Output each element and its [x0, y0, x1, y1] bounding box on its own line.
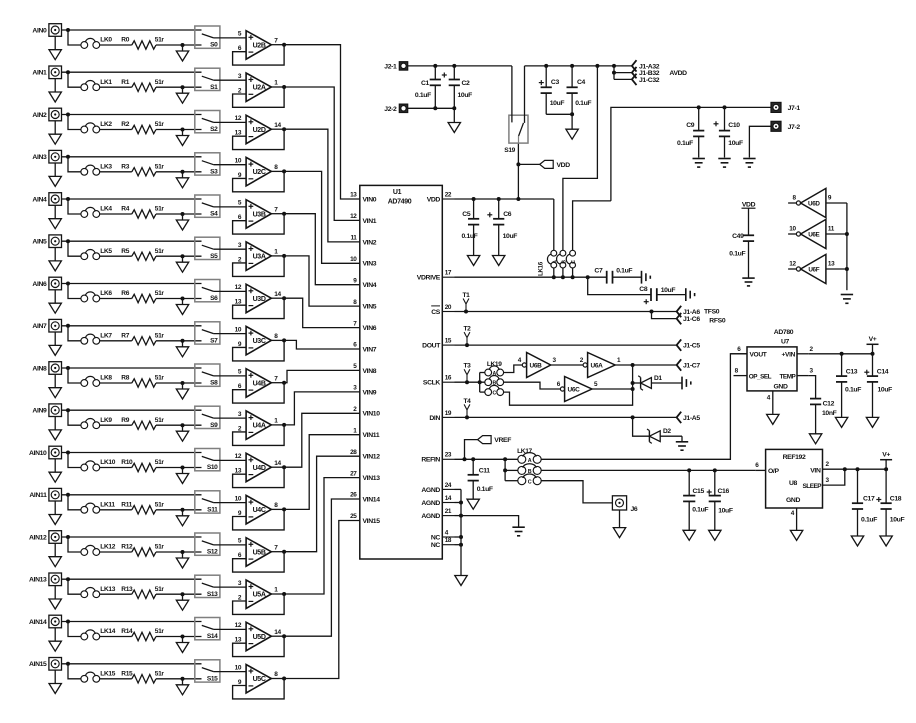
- wire feedback: [233, 679, 285, 699]
- svg-text:VIN15: VIN15: [363, 518, 381, 525]
- svg-text:8: 8: [792, 194, 796, 201]
- switch S2: [195, 111, 220, 134]
- wire: [271, 592, 286, 596]
- wire: [68, 284, 81, 299]
- pin 2 +VIN: [797, 346, 814, 354]
- svg-text:C4: C4: [577, 79, 586, 86]
- wire to VIN3: [284, 171, 360, 263]
- svg-text:0.1uF: 0.1uF: [477, 486, 493, 493]
- wire: [68, 72, 81, 87]
- ground: [613, 510, 625, 538]
- svg-text:11: 11: [828, 225, 835, 232]
- svg-text:R2: R2: [121, 121, 129, 128]
- svg-text:C: C: [492, 391, 496, 397]
- pin 24 AGND: [421, 482, 454, 494]
- wire: [156, 254, 202, 258]
- svg-text:C2: C2: [462, 80, 471, 87]
- wire: [271, 43, 286, 47]
- op-amp U4B: [238, 369, 278, 398]
- link LK17 A: [518, 453, 541, 464]
- pin 13 VIN0: [350, 192, 377, 204]
- wire AVDD rail: [525, 64, 632, 68]
- svg-text:28: 28: [350, 449, 357, 456]
- wire J2-2 rail: [408, 106, 457, 110]
- svg-text:3: 3: [238, 580, 242, 587]
- wire: [99, 636, 131, 638]
- svg-text:LK10: LK10: [100, 459, 115, 466]
- svg-text:LK6: LK6: [100, 290, 112, 297]
- capacitor C1 0.1uF: [415, 66, 441, 108]
- svg-text:S10: S10: [207, 464, 218, 471]
- svg-text:C11: C11: [479, 468, 491, 475]
- svg-text:U4A: U4A: [253, 423, 266, 430]
- resistor R4 51r: [121, 206, 164, 219]
- svg-text:U5A: U5A: [253, 592, 266, 599]
- svg-text:10: 10: [235, 495, 242, 502]
- switch S10: [195, 449, 220, 472]
- wire: [68, 199, 81, 214]
- svg-text:RFS0: RFS0: [709, 318, 726, 325]
- svg-text:LK0: LK0: [100, 37, 112, 44]
- wire: [99, 255, 131, 257]
- switch S5: [195, 237, 220, 260]
- wire: [214, 290, 247, 292]
- svg-text:J1-A6: J1-A6: [683, 309, 700, 316]
- wire feedback: [233, 383, 285, 403]
- op-amp U2D: [235, 115, 282, 144]
- wire: [214, 417, 247, 419]
- svg-text:U6D: U6D: [808, 201, 820, 208]
- link LK3: [81, 163, 112, 175]
- svg-text:3: 3: [238, 242, 242, 249]
- resistor R8 51r: [121, 375, 164, 388]
- wire feedback: [233, 129, 285, 149]
- ground: [49, 163, 61, 186]
- wire: [511, 66, 513, 122]
- IC U8 REF192: [766, 449, 823, 508]
- svg-text:0.1uF: 0.1uF: [575, 100, 591, 107]
- node AIN9: [32, 408, 47, 415]
- wire: [156, 85, 202, 89]
- svg-text:U5D: U5D: [253, 634, 266, 641]
- svg-text:S1: S1: [210, 84, 218, 91]
- wire: [271, 296, 286, 300]
- wire: [156, 128, 202, 132]
- svg-text:LK7: LK7: [100, 332, 112, 339]
- svg-text:VREF: VREF: [494, 437, 511, 444]
- pin 7 VIN6: [353, 320, 376, 332]
- wire to VIN10: [284, 413, 360, 467]
- pin 3 SLEEP: [823, 469, 845, 485]
- wire: [214, 586, 247, 588]
- wire: [615, 363, 676, 367]
- wire: [271, 550, 286, 554]
- wire: [68, 30, 81, 45]
- svg-text:LK16: LK16: [538, 261, 545, 276]
- svg-text:5: 5: [594, 381, 598, 388]
- svg-text:10uF: 10uF: [503, 233, 518, 240]
- svg-text:REFIN: REFIN: [421, 457, 440, 464]
- svg-text:J7-2: J7-2: [788, 124, 801, 131]
- wire: [68, 579, 81, 594]
- svg-text:10: 10: [235, 664, 242, 671]
- svg-text:20: 20: [445, 304, 452, 311]
- ground: [49, 670, 61, 694]
- svg-text:LK12: LK12: [100, 544, 115, 551]
- link LK7: [81, 332, 112, 344]
- wire: [99, 213, 131, 215]
- svg-text:C3: C3: [551, 79, 560, 86]
- ground: [176, 45, 188, 61]
- svg-text:U3B: U3B: [253, 211, 266, 218]
- ground: [743, 159, 755, 168]
- wire: [271, 465, 286, 469]
- inverter U6B: [518, 353, 557, 378]
- svg-text:12: 12: [235, 284, 242, 291]
- svg-text:LK3: LK3: [100, 163, 112, 170]
- pin 18 NC: [431, 537, 455, 549]
- op-amp U3D: [235, 284, 282, 313]
- svg-text:U6F: U6F: [808, 267, 819, 274]
- svg-text:10uF: 10uF: [728, 140, 743, 147]
- svg-text:VIN5: VIN5: [363, 304, 377, 311]
- wire to VIN15: [284, 521, 360, 679]
- svg-text:25: 25: [350, 513, 357, 520]
- svg-text:S14: S14: [207, 633, 218, 640]
- resistor R14 51r: [121, 628, 164, 641]
- resistor R11 51r: [121, 501, 164, 514]
- svg-text:TFS0: TFS0: [704, 309, 720, 316]
- pin 6 O/P: [755, 462, 765, 470]
- svg-text:23: 23: [445, 452, 452, 459]
- wire: [62, 70, 202, 74]
- svg-text:10uF: 10uF: [661, 287, 676, 294]
- svg-text:8: 8: [735, 368, 739, 375]
- ground: [49, 628, 61, 651]
- wire: [62, 197, 202, 201]
- svg-text:TEMP: TEMP: [780, 373, 797, 380]
- node AIN13: [29, 577, 47, 584]
- wire: [99, 467, 131, 469]
- svg-text:8: 8: [274, 164, 278, 171]
- capacitor C13 0.1uF: [836, 354, 861, 418]
- wire: [62, 408, 202, 412]
- svg-text:VDD: VDD: [742, 201, 756, 208]
- link LK17 B: [505, 464, 541, 475]
- IC U7 AD780: [747, 329, 797, 391]
- wire to U7 VOUT: [541, 354, 747, 460]
- switch S19: [504, 115, 528, 154]
- wire REFIN net: [455, 457, 518, 461]
- svg-text:1: 1: [274, 249, 278, 256]
- wire feedback: [233, 298, 285, 318]
- svg-text:AD780: AD780: [774, 329, 794, 336]
- svg-text:C1: C1: [421, 80, 430, 87]
- ground: [49, 417, 61, 440]
- svg-text:VIN2: VIN2: [363, 239, 377, 246]
- wire: [156, 43, 202, 47]
- svg-text:AIN6: AIN6: [32, 281, 47, 288]
- power V+: [880, 452, 892, 470]
- wire: [271, 423, 286, 427]
- svg-text:GND: GND: [773, 384, 787, 391]
- inverter U6D: [788, 188, 847, 217]
- svg-text:51r: 51r: [155, 375, 165, 382]
- ground: [880, 536, 892, 546]
- net label VDD: [742, 201, 756, 208]
- pin 19 DIN: [429, 410, 454, 422]
- link LK19 B: [485, 376, 504, 387]
- capacitor C15 0.1uF: [683, 470, 708, 530]
- ground: [841, 295, 853, 304]
- svg-text:AIN10: AIN10: [29, 450, 47, 457]
- svg-text:5: 5: [353, 363, 357, 370]
- diode D1: [631, 375, 682, 390]
- node AIN1: [32, 70, 47, 77]
- link LK16 B: [557, 66, 598, 277]
- svg-text:AIN13: AIN13: [29, 577, 47, 584]
- wire: [503, 365, 633, 405]
- svg-text:U8: U8: [789, 480, 798, 487]
- svg-text:3: 3: [238, 73, 242, 80]
- ground: [866, 417, 878, 427]
- pin 17 VDRIVE: [417, 270, 455, 282]
- pin 4 GND: [767, 391, 773, 414]
- svg-text:51r: 51r: [155, 501, 165, 508]
- svg-text:0.1uF: 0.1uF: [729, 250, 745, 257]
- ground: [176, 425, 188, 441]
- wire: [68, 241, 81, 256]
- svg-text:13: 13: [828, 260, 835, 267]
- svg-text:R8: R8: [121, 375, 129, 382]
- resistor R13 51r: [121, 586, 164, 599]
- connector J6: [612, 496, 638, 513]
- ground: [693, 159, 705, 168]
- svg-text:U5C: U5C: [253, 676, 266, 683]
- svg-text:11: 11: [350, 235, 357, 242]
- resistor R6 51r: [121, 290, 164, 303]
- link LK15: [81, 670, 116, 682]
- wire VDD net: [455, 197, 554, 201]
- wire: [214, 628, 247, 630]
- svg-text:SLEEP: SLEEP: [803, 483, 823, 490]
- op-amp U5D: [235, 622, 282, 651]
- wire: [68, 326, 81, 341]
- svg-text:U2D: U2D: [253, 127, 266, 134]
- switch S0: [195, 26, 220, 49]
- svg-text:LK5: LK5: [100, 248, 112, 255]
- node AIN5: [32, 239, 47, 246]
- wire VDRIVE net: [455, 275, 607, 279]
- ground: [49, 205, 61, 228]
- svg-text:0.1uF: 0.1uF: [677, 140, 693, 147]
- svg-text:C10: C10: [728, 122, 740, 129]
- pin 23 REFIN: [421, 452, 454, 464]
- wire: [214, 206, 247, 208]
- link LK13: [81, 586, 116, 598]
- node AIN4: [32, 196, 47, 203]
- svg-text:VIN10: VIN10: [363, 411, 381, 418]
- pin 4 GND: [791, 508, 797, 530]
- svg-text:R9: R9: [121, 417, 129, 424]
- wire: [156, 212, 202, 216]
- svg-text:J1-C32: J1-C32: [639, 77, 660, 84]
- svg-text:VDD: VDD: [427, 196, 441, 203]
- pin 16 SCLK: [423, 375, 455, 387]
- svg-text:R13: R13: [121, 586, 133, 593]
- wire: [99, 298, 131, 300]
- wire: [62, 366, 202, 370]
- wire feedback: [233, 552, 285, 572]
- svg-text:U3D: U3D: [253, 296, 266, 303]
- ground: [835, 417, 847, 427]
- svg-text:C7: C7: [594, 268, 603, 275]
- capacitor C17 0.1uF: [852, 469, 877, 536]
- wire: [99, 340, 131, 342]
- wire: [271, 254, 286, 258]
- wire: [546, 112, 574, 116]
- svg-text:S8: S8: [210, 380, 218, 387]
- wire: [68, 453, 81, 468]
- test point T2: [464, 326, 472, 346]
- wire: [214, 333, 247, 335]
- pin 25 VIN15: [350, 513, 380, 525]
- wire: [271, 677, 286, 681]
- svg-text:9: 9: [828, 194, 832, 201]
- svg-text:10nF: 10nF: [822, 410, 837, 417]
- wire: [214, 502, 247, 504]
- ground: [493, 256, 505, 266]
- svg-text:0.1uF: 0.1uF: [861, 517, 877, 524]
- svg-text:1: 1: [617, 357, 621, 364]
- ground: [49, 79, 61, 103]
- svg-text:R0: R0: [121, 37, 129, 44]
- ground: [49, 501, 61, 524]
- wire CS net: [455, 310, 677, 314]
- wire: [68, 664, 81, 679]
- wire: [214, 375, 247, 377]
- link LK5: [81, 248, 112, 260]
- ground: [742, 278, 754, 286]
- resistor R1 51r: [121, 79, 164, 92]
- svg-text:NC: NC: [431, 542, 441, 549]
- ground: [176, 299, 188, 315]
- svg-text:0.1uF: 0.1uF: [461, 233, 477, 240]
- svg-text:AIN7: AIN7: [32, 323, 47, 330]
- wire: [99, 509, 131, 511]
- wire: [156, 381, 202, 385]
- svg-text:VOUT: VOUT: [750, 351, 767, 358]
- svg-text:VDRIVE: VDRIVE: [417, 275, 441, 282]
- svg-text:U7: U7: [781, 338, 790, 345]
- wire: [156, 635, 202, 639]
- svg-text:C6: C6: [503, 211, 512, 218]
- wire: [156, 508, 202, 512]
- wire: [156, 677, 202, 681]
- resistor R3 51r: [121, 163, 164, 176]
- wire: [524, 66, 526, 123]
- svg-text:VIN0: VIN0: [363, 196, 377, 203]
- svg-text:4: 4: [791, 510, 795, 517]
- svg-text:51r: 51r: [155, 290, 165, 297]
- wire feedback: [233, 636, 285, 656]
- wire: [214, 79, 247, 81]
- svg-text:NC: NC: [431, 534, 441, 541]
- switch S6: [195, 280, 220, 303]
- svg-text:R15: R15: [121, 670, 133, 677]
- wire: [214, 164, 247, 166]
- wire: [99, 382, 131, 384]
- svg-text:U5B: U5B: [253, 549, 266, 556]
- svg-text:VDD: VDD: [557, 162, 571, 169]
- svg-text:R5: R5: [121, 248, 129, 255]
- capacitor C4 0.1uF: [567, 66, 592, 114]
- svg-text:R11: R11: [121, 501, 132, 508]
- svg-text:0.1uF: 0.1uF: [415, 92, 431, 99]
- pin 3 TEMP: [797, 368, 814, 376]
- svg-text:C16: C16: [718, 488, 730, 495]
- wire: [99, 551, 131, 553]
- node AIN7: [32, 323, 47, 330]
- svg-text:C14: C14: [877, 369, 889, 376]
- net AVDD: [669, 70, 687, 77]
- link LK8: [81, 375, 112, 387]
- wire: [156, 466, 202, 470]
- switch S14: [195, 618, 220, 641]
- pin 22 VDD: [427, 191, 455, 203]
- svg-text:AIN15: AIN15: [29, 661, 47, 668]
- svg-text:10: 10: [235, 326, 242, 333]
- pin 12 VIN1: [350, 213, 377, 225]
- svg-text:27: 27: [350, 470, 357, 477]
- svg-text:V+: V+: [882, 452, 890, 459]
- svg-text:U6E: U6E: [808, 232, 819, 239]
- wire: [214, 671, 247, 673]
- pin 20 CS: [431, 304, 454, 316]
- op-amp U3B: [238, 200, 278, 229]
- svg-text:0.1uF: 0.1uF: [845, 387, 861, 394]
- op-amp U5C: [235, 664, 279, 693]
- svg-text:AIN11: AIN11: [29, 492, 47, 499]
- wire REF192 output net: [541, 468, 755, 472]
- pin 26 VIN14: [350, 492, 380, 504]
- svg-text:AIN9: AIN9: [32, 408, 47, 415]
- capacitor C12 10nF: [809, 376, 837, 434]
- svg-text:51r: 51r: [155, 670, 165, 677]
- resistor R10 51r: [121, 459, 164, 472]
- svg-text:VIN7: VIN7: [363, 346, 377, 353]
- svg-text:AIN3: AIN3: [32, 154, 47, 161]
- ground: [49, 543, 61, 566]
- connector J-AIN11: [49, 488, 62, 501]
- op-amp U5A: [238, 580, 278, 609]
- wire: [62, 155, 202, 159]
- link LK10: [81, 459, 116, 471]
- svg-text:C49: C49: [732, 233, 744, 240]
- wire: [214, 121, 247, 123]
- svg-text:AGND: AGND: [421, 513, 440, 520]
- svg-text:12: 12: [235, 115, 242, 122]
- op-amp U3C: [235, 326, 279, 355]
- svg-text:T2: T2: [464, 326, 472, 333]
- capacitor C14 10uF: [864, 354, 892, 418]
- power flag VDD: [516, 160, 570, 169]
- svg-text:S3: S3: [210, 168, 218, 175]
- ground: [176, 552, 188, 568]
- ground: [683, 530, 695, 540]
- wire: [551, 364, 583, 366]
- op-amp U3A: [238, 242, 278, 271]
